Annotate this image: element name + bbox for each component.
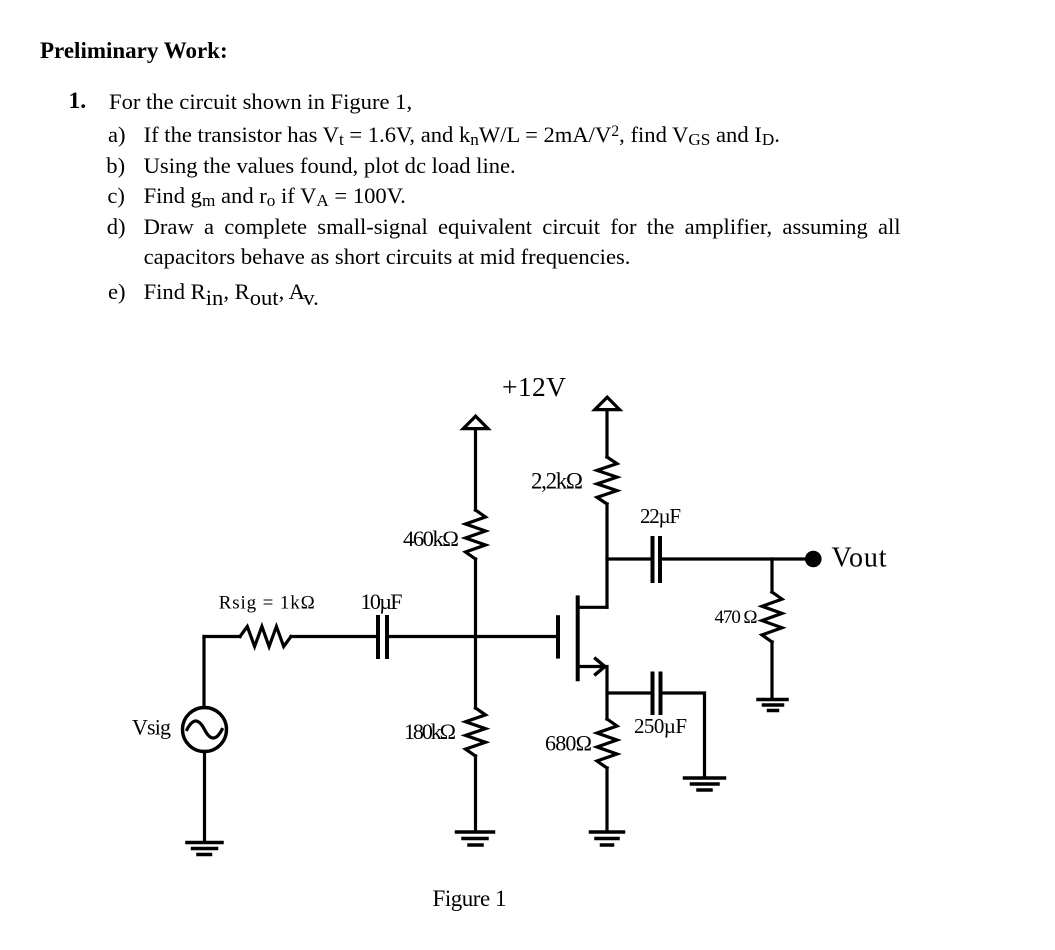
wire 680 to ground — [605, 768, 608, 831]
label 2.2k — [531, 469, 583, 494]
label Vout — [832, 543, 887, 574]
label 22uF — [640, 504, 681, 528]
ground under 250uF — [685, 778, 725, 790]
svg-text:Rsig = 1kΩ: Rsig = 1kΩ — [219, 593, 315, 614]
wire gate line — [204, 635, 556, 638]
wire 460k to gate node — [474, 559, 477, 637]
item b — [106, 155, 125, 178]
power arrow VDD right — [595, 397, 620, 409]
label 180k — [404, 719, 456, 744]
svg-text:680Ω: 680Ω — [545, 731, 592, 756]
ground under 470 — [758, 700, 787, 711]
label 10uF — [361, 589, 403, 614]
source Vsig sine — [187, 721, 222, 738]
wire 2.2k to VDD arrow — [605, 410, 608, 457]
transistor Q1 drain lead — [578, 606, 607, 609]
wire Vsig branch down — [202, 637, 205, 708]
wire 22uF to Vout — [662, 557, 810, 560]
transistor Q1 source arrow — [596, 659, 605, 675]
wire 470 to ground — [770, 642, 773, 699]
figure caption — [433, 886, 507, 911]
svg-text:Vsig: Vsig — [132, 715, 171, 740]
svg-text:+12V: +12V — [502, 371, 566, 402]
ground under 680 — [591, 832, 624, 845]
svg-text:10µF: 10µF — [361, 589, 403, 614]
svg-text:250µF: 250µF — [634, 714, 687, 738]
node Vout dot — [805, 551, 822, 568]
item 1 text — [109, 91, 412, 114]
wire 22uF branch — [607, 557, 650, 560]
wire 250uF branch — [607, 691, 650, 694]
item a — [108, 124, 126, 147]
heading — [40, 39, 228, 62]
item c — [107, 185, 125, 208]
source Vsig circle — [183, 708, 227, 752]
resistor Rsig 1k — [240, 627, 291, 647]
capacitor C2 22uF plates — [653, 538, 661, 581]
svg-text:22µF: 22µF — [640, 504, 681, 528]
resistor R5 680 — [597, 719, 617, 768]
wire source down to 680 — [605, 667, 608, 720]
wire Vout node down to 470 — [770, 559, 773, 592]
ground under Vsig — [187, 843, 222, 855]
svg-text:Figure 1: Figure 1 — [433, 886, 507, 911]
resistor R4 470 — [762, 592, 782, 642]
svg-text:2,2kΩ: 2,2kΩ — [531, 469, 583, 494]
label 250uF — [634, 714, 687, 738]
label 460k — [403, 526, 459, 551]
transistor Q1 source lead — [578, 665, 604, 668]
item 1 number — [69, 90, 87, 114]
wire drain up to 22uF node — [605, 504, 608, 607]
svg-text:460kΩ: 460kΩ — [403, 526, 459, 551]
svg-text:470 Ω: 470 Ω — [715, 607, 758, 628]
transistor Q1 gate bar — [556, 617, 560, 656]
wire 250uF to its ground — [663, 693, 705, 777]
label Rsig — [219, 593, 315, 614]
item e — [108, 281, 126, 304]
transistor Q1 channel bar — [576, 597, 580, 679]
capacitor C1 10uF plates — [378, 617, 387, 657]
wire Vsig to ground — [203, 752, 206, 842]
label 680 — [545, 731, 592, 756]
svg-text:Vout: Vout — [832, 543, 887, 574]
capacitor C3 250uF plates — [653, 674, 661, 714]
resistor R3 2.2k — [597, 457, 617, 504]
ground under 180k — [457, 832, 494, 845]
wire 180k to ground — [474, 756, 477, 831]
label Vsig — [132, 715, 171, 740]
resistor R1 460k — [466, 510, 486, 559]
wire gate node down to 180k — [474, 637, 477, 709]
resistor R2 180k — [466, 708, 486, 756]
label +12V — [502, 371, 566, 402]
power arrow VDD left — [463, 416, 488, 428]
svg-text:180kΩ: 180kΩ — [404, 719, 456, 744]
wire VDD left to 460k — [474, 429, 477, 510]
item d — [107, 216, 126, 239]
label 470 — [715, 607, 758, 628]
